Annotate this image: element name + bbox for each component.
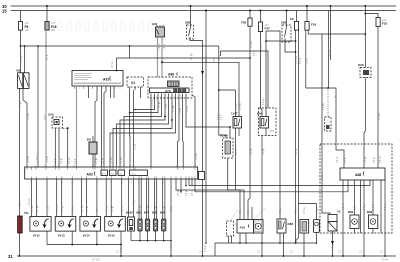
svg-text:E8: E8: [87, 138, 91, 142]
wire: [214, 243, 216, 256]
ghost fuse row: [58, 22, 152, 31]
component A61 (coil unit top middle): [152, 22, 165, 37]
wire bus30 drop to K20: [364, 6, 366, 68]
wire: [363, 180, 365, 256]
svg-text:0.5 sw: 0.5 sw: [152, 99, 154, 106]
svg-text:A16: A16: [240, 226, 246, 230]
wire from F8 to relay K6: [20, 30, 22, 73]
svg-text:0.5 rt: 0.5 rt: [213, 56, 216, 62]
node on bus 30: [364, 5, 366, 7]
ignition coil 6Y14: [80, 217, 101, 238]
node: [295, 242, 297, 244]
wire: [372, 229, 374, 234]
svg-text:F19: F19: [311, 23, 317, 27]
ignition coil T11: [18, 211, 30, 233]
wire fuse F8 drop: [20, 11, 22, 22]
svg-text:0.5 bl: 0.5 bl: [166, 104, 168, 110]
connector X2: [199, 172, 205, 180]
dashed link to node: [63, 127, 68, 129]
node: [245, 242, 247, 244]
svg-text:F47: F47: [265, 27, 271, 31]
wire gray from F16 to X55: [45, 30, 47, 167]
node: [147, 240, 149, 242]
svg-text:0.5 ws: 0.5 ws: [140, 205, 142, 212]
wire: [303, 233, 305, 256]
svg-text:6Y15: 6Y15: [108, 234, 115, 238]
svg-text:0.5 rt: 0.5 rt: [179, 108, 182, 114]
wire: [186, 94, 230, 139]
svg-text:0.5 sw: 0.5 sw: [240, 207, 242, 214]
node: [260, 10, 262, 12]
main connector X55: [25, 167, 198, 179]
wire: [372, 180, 374, 215]
node: [303, 255, 305, 257]
svg-text:0.5 rt: 0.5 rt: [74, 158, 77, 164]
svg-text:0.5 sw: 0.5 sw: [379, 113, 381, 120]
wire: [235, 90, 237, 117]
node: [205, 10, 207, 12]
svg-text:0.5 bl: 0.5 bl: [87, 206, 89, 212]
node: [283, 255, 285, 257]
wire to fuse F30: [249, 11, 251, 19]
svg-text:1147: 1147: [231, 112, 238, 116]
switch S62: [281, 10, 291, 43]
svg-text:0.75 sw: 0.75 sw: [296, 206, 298, 214]
wire: [130, 94, 159, 113]
svg-text:0.5 bl: 0.5 bl: [55, 158, 57, 164]
svg-text:A92: A92: [87, 173, 93, 177]
dotted links: [230, 210, 238, 221]
node: [342, 255, 344, 257]
svg-text:0.75 br: 0.75 br: [170, 243, 173, 250]
wire drop to K6 pin: [24, 46, 26, 73]
svg-text:F30: F30: [241, 21, 247, 25]
svg-text:0.75 rt: 0.75 rt: [260, 43, 263, 50]
wire loop to K88: [266, 31, 280, 219]
wire to relay K20: [308, 33, 365, 35]
wire: [61, 179, 63, 217]
svg-text:0.75 br: 0.75 br: [204, 245, 207, 252]
node: [96, 244, 98, 246]
svg-text:0.5 ge: 0.5 ge: [317, 207, 319, 214]
wire: [234, 223, 238, 225]
node: [67, 127, 69, 129]
wire link: [266, 40, 296, 42]
A88 extra pin drops: [360, 180, 362, 233]
wire: [330, 6, 332, 60]
relay K6: [17, 69, 30, 89]
wire: [113, 86, 115, 98]
svg-text:T11: T11: [24, 211, 29, 215]
node: [24, 45, 26, 47]
svg-text:0.5 vi: 0.5 vi: [103, 158, 105, 164]
svg-text:0.5 gn: 0.5 gn: [280, 207, 282, 214]
coil collector wires: [46, 231, 48, 244]
svg-text:0.5 bl: 0.5 bl: [178, 190, 180, 196]
svg-text:0.5 rt: 0.5 rt: [354, 204, 357, 210]
svg-text:K20: K20: [358, 63, 364, 67]
node: [37, 45, 39, 47]
pin numbers X55 bottom: [30, 182, 197, 184]
svg-text:0.5 sw: 0.5 sw: [69, 157, 71, 164]
svg-text:0.5 sw: 0.5 sw: [32, 205, 34, 212]
svg-text:0.5 ge: 0.5 ge: [159, 101, 161, 108]
wire: [147, 231, 149, 241]
fuse F23: [365, 14, 387, 27]
wire: [128, 179, 130, 217]
wire: [265, 128, 267, 136]
svg-text:0.5 rt: 0.5 rt: [253, 50, 256, 56]
node: [202, 255, 204, 257]
X55 bottom wires to coils: [31, 179, 33, 217]
svg-text:30A: 30A: [51, 29, 56, 32]
wire: [219, 51, 221, 56]
svg-text:S85: S85: [185, 21, 191, 25]
wire: [260, 11, 262, 23]
node on A61 wire: [161, 61, 163, 63]
svg-text:203: 203: [270, 130, 275, 133]
lambda sensor G0: [300, 220, 309, 234]
svg-text:0.5 rt: 0.5 rt: [247, 208, 250, 214]
svg-text:0.5 sw: 0.5 sw: [300, 57, 302, 64]
right end runs: [189, 179, 370, 186]
node: [71, 244, 73, 246]
sensor B60: [348, 210, 359, 229]
wire: [156, 179, 158, 219]
wire X1 pins down: [133, 90, 135, 167]
node: [185, 185, 187, 187]
wire K6 to coil T11: [19, 88, 21, 216]
relay 1147: [231, 112, 242, 129]
wire: [139, 231, 141, 241]
throttle motor: [254, 220, 264, 234]
svg-text:A30: A30: [48, 113, 54, 117]
bus 30: [2, 4, 396, 9]
wire: [140, 179, 142, 219]
svg-text:0.75 sw: 0.75 sw: [206, 54, 208, 62]
wire: [180, 179, 182, 192]
wire code labels: [20, 41, 388, 252]
wire fuse F16 drop: [46, 6, 48, 22]
svg-text:B60: B60: [348, 210, 354, 214]
wire gray from A91: [76, 86, 78, 167]
pin numbers A91: [74, 88, 122, 90]
sensor B70: [144, 211, 150, 232]
svg-text:F23: F23: [382, 22, 388, 26]
fuse F47: [258, 22, 270, 32]
wire drop mid: [205, 11, 207, 244]
svg-text:0.75 ws: 0.75 ws: [296, 55, 298, 64]
svg-text:0.5 gn: 0.5 gn: [20, 101, 22, 108]
node: [139, 240, 141, 242]
wire F23 to A88: [377, 27, 379, 169]
svg-text:0.5 sw: 0.5 sw: [251, 148, 253, 155]
svg-text:0.5 sw: 0.5 sw: [343, 203, 345, 210]
wire: [164, 179, 166, 219]
wire drop to X55: [37, 46, 39, 167]
wire S62 join: [285, 42, 296, 52]
node: [134, 109, 136, 111]
svg-text:0.5 ge: 0.5 ge: [155, 205, 157, 212]
wire: [46, 179, 48, 217]
wire: [133, 179, 135, 217]
svg-text:0.5 ws: 0.5 ws: [385, 203, 387, 210]
node: [327, 87, 329, 89]
svg-text:0.5 gn: 0.5 gn: [364, 203, 366, 210]
fuse F8: [18, 22, 29, 33]
svg-text:0.5 sw: 0.5 sw: [121, 157, 123, 164]
fuse F9: [290, 11, 299, 31]
svg-text:A91: A91: [103, 78, 109, 82]
sensor B44: [314, 220, 320, 233]
svg-text:1.0 rt: 1.0 rt: [96, 206, 99, 212]
wire: [120, 94, 165, 168]
svg-text:K88: K88: [288, 222, 294, 226]
svg-text:0.5 gn: 0.5 gn: [263, 148, 265, 155]
svg-text:0.5 ge: 0.5 ge: [62, 205, 64, 212]
svg-text:0.5 br: 0.5 br: [235, 149, 238, 155]
svg-text:0.5 br: 0.5 br: [332, 244, 335, 250]
node: [265, 40, 267, 42]
node: [129, 112, 131, 114]
wire to A16: [176, 179, 240, 220]
control unit A80 dashed: [148, 73, 192, 99]
fuse F19: [305, 5, 317, 30]
component A30: [48, 113, 63, 168]
svg-text:B162: B162: [126, 211, 133, 215]
svg-text:F9: F9: [290, 17, 294, 21]
wire y51 run: [220, 51, 268, 108]
relay K94: [257, 108, 276, 136]
svg-text:K6: K6: [17, 69, 21, 73]
wire: [307, 30, 309, 34]
svg-text:0.5 gr: 0.5 gr: [111, 206, 114, 212]
svg-text:0.5 br: 0.5 br: [328, 50, 331, 56]
svg-text:0.5 ws: 0.5 ws: [304, 207, 306, 214]
wire: [56, 179, 58, 217]
wire F47 to relay K94: [261, 32, 263, 117]
wire to ground collector: [170, 179, 172, 256]
A16 ground wires: [239, 233, 241, 243]
wire K94 to ground: [261, 136, 263, 257]
node on bus 15: [249, 10, 251, 12]
svg-text:97-123: 97-123: [92, 258, 101, 262]
wire: [110, 179, 112, 217]
valve Y2: [328, 210, 341, 257]
pin numbers X55 top: [26, 165, 197, 167]
svg-text:Y2: Y2: [337, 210, 341, 214]
svg-text:0.5 ge: 0.5 ge: [365, 156, 367, 163]
ignition coil 6Y12: [30, 217, 51, 238]
svg-text:0.5 gn: 0.5 gn: [236, 103, 238, 110]
wire: [154, 179, 156, 219]
svg-text:0.75 sw: 0.75 sw: [37, 154, 39, 162]
svg-text:0.5 sw: 0.5 sw: [337, 156, 339, 163]
ignition coil 6Y15: [105, 217, 126, 238]
wire: [129, 90, 132, 167]
svg-text:1.0 br: 1.0 br: [134, 144, 137, 150]
wire F30 down to A16: [248, 26, 250, 219]
wire: [104, 86, 106, 167]
bus 15: [2, 8, 396, 13]
control unit A88: [340, 168, 385, 180]
bus 30 node drop: [330, 5, 332, 7]
wire: [121, 179, 123, 217]
wire: [238, 128, 240, 136]
svg-text:2.5 sw: 2.5 sw: [20, 199, 22, 206]
wire: [135, 94, 155, 110]
sensor B32: [152, 211, 158, 232]
fuse F30: [241, 18, 252, 26]
wire: [195, 179, 348, 192]
node: [295, 40, 297, 42]
node: [279, 242, 281, 244]
svg-text:0.5 sw: 0.5 sw: [57, 205, 59, 212]
svg-text:0.5 gn: 0.5 gn: [173, 105, 175, 112]
svg-text:0.5 ws: 0.5 ws: [296, 148, 298, 155]
A/S module: [150, 88, 190, 93]
switch S85: [185, 5, 194, 39]
svg-text:0.5 ge: 0.5 ge: [96, 157, 98, 164]
ground bus 31: [8, 254, 396, 259]
arrow on Y2 wire: [331, 241, 334, 245]
node: [120, 255, 122, 257]
wire: [163, 231, 165, 241]
svg-text:0.5 ws: 0.5 ws: [196, 153, 198, 160]
svg-text:0.5 ws: 0.5 ws: [111, 157, 113, 164]
svg-text:6Y14: 6Y14: [83, 234, 90, 238]
svg-text:0.5 sw: 0.5 sw: [240, 103, 242, 110]
wire: [298, 30, 300, 238]
svg-text:0.75 br: 0.75 br: [120, 245, 123, 252]
svg-text:0.5 bl: 0.5 bl: [373, 204, 375, 210]
wire: [354, 180, 356, 215]
wire node down: [67, 128, 69, 167]
component K1A4: [220, 134, 233, 159]
wire: [101, 86, 103, 167]
svg-text:0.5 gn: 0.5 gn: [323, 103, 325, 110]
wire: [110, 86, 112, 98]
node: [261, 255, 263, 257]
svg-text:0.5 vi: 0.5 vi: [187, 106, 189, 112]
connector pin ticks: [27, 167, 195, 178]
node on bus 30: [46, 5, 48, 7]
svg-text:0.5 ws: 0.5 ws: [380, 156, 382, 163]
wire: [328, 11, 330, 61]
svg-text:15: 15: [2, 8, 7, 13]
wire: [71, 231, 73, 244]
sensor B40: [160, 211, 166, 232]
wire: [146, 179, 148, 219]
svg-text:1.0 rt: 1.0 rt: [121, 206, 124, 212]
display module: [168, 81, 180, 87]
wire: [47, 244, 121, 246]
dashed unit boundary: [320, 144, 392, 233]
A80 pin wires nested routing: [150, 94, 152, 168]
wire: [85, 179, 87, 217]
svg-text:0.5 sw: 0.5 sw: [251, 41, 253, 48]
wire: [129, 46, 131, 58]
wire: [296, 238, 299, 243]
node: [218, 89, 220, 91]
sensor B28: [367, 210, 378, 229]
svg-text:0.5 ws: 0.5 ws: [28, 113, 30, 120]
svg-text:0.5 sw: 0.5 sw: [29, 198, 31, 205]
svg-text:0.5 gn: 0.5 gn: [37, 205, 39, 212]
wire: [315, 233, 317, 244]
svg-text:0.5 gn: 0.5 gn: [186, 189, 188, 196]
sensor stubs: [354, 229, 356, 234]
node: [120, 244, 122, 246]
wire: [251, 207, 253, 220]
wire mid right: [322, 34, 330, 215]
svg-text:0.5 gr: 0.5 gr: [60, 158, 63, 164]
wire 1147 down: [235, 128, 237, 190]
wire gray pair A61 to A80: [157, 37, 159, 77]
wire: [296, 242, 316, 244]
node: [249, 57, 251, 59]
wire: [162, 179, 164, 219]
dotted wire to B5: [327, 88, 329, 117]
A88 bottom wires: [342, 180, 344, 256]
sensor E8: [87, 136, 97, 167]
wire S85 down and right: [190, 39, 203, 256]
svg-text:0.5 rt: 0.5 rt: [220, 114, 223, 120]
wire: [105, 179, 107, 217]
svg-text:A88: A88: [355, 173, 361, 177]
svg-text:10A: 10A: [25, 29, 30, 32]
wire: [380, 180, 382, 233]
wire corner down to K1A4: [219, 46, 226, 138]
wire: [182, 94, 185, 168]
svg-text:127,5: 127,5: [131, 173, 137, 175]
svg-text:0.5 bl: 0.5 bl: [374, 157, 376, 163]
wire K20 to A88: [364, 78, 365, 169]
wire: [254, 208, 265, 220]
wire: [185, 179, 187, 186]
svg-text:0.5 ge: 0.5 ge: [134, 198, 136, 205]
wire: [120, 231, 122, 244]
svg-text:S62: S62: [281, 21, 287, 25]
control unit A91: [72, 71, 123, 87]
svg-text:0.5 br: 0.5 br: [321, 174, 324, 180]
wire: [245, 233, 247, 243]
node: [180, 191, 182, 193]
relay K20: [358, 63, 371, 78]
wire: [131, 240, 171, 242]
wire: [155, 231, 157, 241]
svg-text:6Y13: 6Y13: [58, 234, 65, 238]
node: [205, 242, 207, 244]
connector X1: [127, 77, 144, 90]
svg-text:0.5 rt: 0.5 rt: [306, 58, 309, 64]
svg-text:6Y12: 6Y12: [33, 234, 40, 238]
svg-text:1.5 br: 1.5 br: [163, 44, 166, 50]
wire: [384, 180, 386, 256]
A91 extra pin ticks: [75, 86, 115, 89]
svg-text:0.5 sw: 0.5 sw: [21, 55, 23, 62]
wire: [96, 231, 98, 244]
K88 ground: [279, 233, 281, 243]
svg-text:1.0 rt: 1.0 rt: [72, 206, 75, 212]
node: [384, 255, 386, 257]
wire: [36, 179, 38, 217]
F9 wires down: [295, 30, 297, 243]
wire: [283, 233, 285, 256]
node: [129, 45, 131, 47]
wire: [117, 94, 169, 168]
node: [20, 45, 22, 47]
